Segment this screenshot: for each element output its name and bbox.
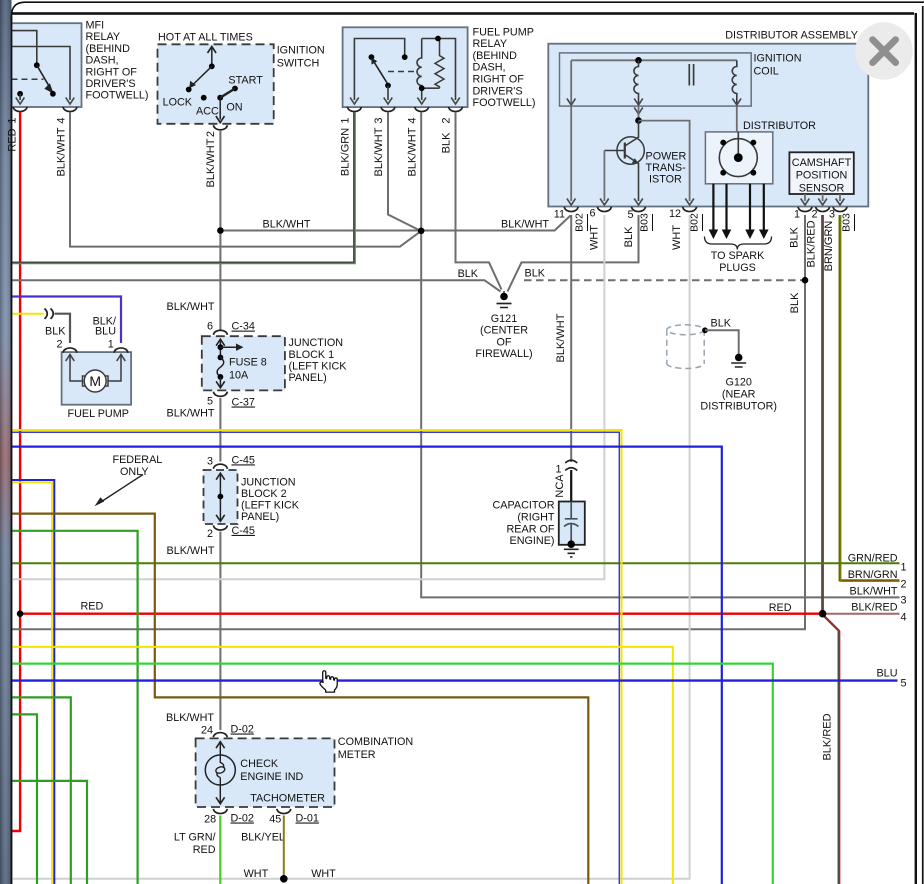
wire BLK/WHT bus y230 bbox=[220, 216, 570, 231]
svg-text:2: 2 bbox=[56, 338, 62, 350]
MFI switch blade bbox=[37, 65, 52, 91]
svg-text:IGNITION: IGNITION bbox=[277, 44, 325, 56]
ground G120 bbox=[731, 363, 746, 367]
svg-text:C-34: C-34 bbox=[232, 321, 255, 333]
svg-text:5: 5 bbox=[901, 678, 907, 690]
wire BLU thin pair top bbox=[11, 432, 619, 884]
connector ignition pin 2 bbox=[213, 125, 227, 130]
arrow down meter exit bbox=[216, 797, 225, 804]
svg-text:JUNCTION: JUNCTION bbox=[289, 337, 344, 349]
svg-text:DASH,: DASH, bbox=[86, 55, 119, 67]
right border line bbox=[915, 13, 917, 884]
connector pin 12 bbox=[683, 207, 697, 212]
svg-text:BLOCK 2: BLOCK 2 bbox=[241, 488, 287, 500]
secondary coil winding L2 bbox=[732, 60, 737, 103]
svg-text:BLOCK 1: BLOCK 1 bbox=[289, 349, 335, 361]
svg-text:ONLY: ONLY bbox=[120, 466, 149, 478]
ignition switch dashed box bbox=[158, 44, 274, 124]
wire BLK FP pin2 to G121 bbox=[456, 112, 502, 290]
svg-text:(LEFT KICK: (LEFT KICK bbox=[289, 360, 348, 372]
svg-text:OF: OF bbox=[497, 336, 512, 348]
ignition coil pin 11 leg bbox=[570, 60, 572, 103]
JB1 tap dot bbox=[218, 344, 224, 350]
wire BLK/RED diagonal red stripe bbox=[826, 617, 840, 884]
svg-text:PANEL): PANEL) bbox=[289, 372, 327, 384]
wire YEL fuel pump feed bbox=[11, 313, 44, 315]
svg-text:BLK/WHT: BLK/WHT bbox=[205, 138, 217, 187]
svg-text:(BEHIND: (BEHIND bbox=[473, 50, 518, 62]
wire BLU exit 5 bbox=[11, 679, 898, 681]
svg-text:28: 28 bbox=[204, 814, 216, 826]
arrow down pin 11 bbox=[567, 199, 576, 206]
FP coil top dot bbox=[435, 36, 441, 42]
connector D-01 bbox=[277, 809, 291, 814]
lamp filament loop bbox=[215, 766, 226, 775]
svg-text:DISTRIBUTOR ASSEMBLY: DISTRIBUTOR ASSEMBLY bbox=[725, 29, 858, 41]
svg-text:WHT: WHT bbox=[244, 868, 269, 880]
fuse 8 top dot bbox=[218, 355, 224, 361]
START contact dot bbox=[232, 86, 238, 92]
distributor box bbox=[705, 132, 772, 184]
svg-text:M: M bbox=[89, 373, 101, 389]
fuel pump box bbox=[62, 352, 132, 405]
MFI pin1 stub bbox=[19, 94, 21, 100]
svg-text:BLK: BLK bbox=[525, 268, 546, 280]
svg-text:CHECK: CHECK bbox=[240, 758, 279, 770]
FP relay coil bbox=[417, 39, 422, 89]
wire BLU left pair corner bbox=[11, 480, 54, 884]
svg-text:2: 2 bbox=[811, 209, 817, 221]
arrow up JB1 entry bbox=[216, 339, 225, 346]
svg-text:ACC: ACC bbox=[196, 106, 219, 118]
svg-text:BLK/GRN: BLK/GRN bbox=[340, 128, 352, 176]
svg-text:WHT: WHT bbox=[311, 868, 336, 880]
svg-text:5: 5 bbox=[627, 209, 633, 221]
wire transistor base to pin 6 bbox=[603, 151, 605, 202]
wire GRN/RED exit 1 bbox=[11, 562, 900, 564]
svg-text:DRIVER'S: DRIVER'S bbox=[473, 85, 523, 97]
arrow down FP pin 3 bbox=[384, 98, 393, 105]
svg-text:BRN/GRN: BRN/GRN bbox=[823, 221, 835, 272]
arrow down MFI pin 1 bbox=[16, 98, 25, 105]
connector C-34 bbox=[213, 330, 227, 335]
svg-text:BLK/WHT: BLK/WHT bbox=[501, 219, 549, 231]
svg-text:TRANS-: TRANS- bbox=[646, 162, 687, 174]
JB1 tap arrowhead bbox=[236, 344, 244, 351]
lamp filament bbox=[217, 755, 224, 785]
svg-text:1: 1 bbox=[794, 209, 800, 221]
distributor contact dot 4 bbox=[751, 170, 757, 176]
wire capacitor lead bbox=[570, 470, 572, 502]
fuse 8 bottom dot bbox=[218, 374, 224, 380]
connector fuel pump pin 1 bbox=[114, 348, 128, 353]
junction dot RED right bbox=[819, 610, 827, 618]
svg-text:RED: RED bbox=[769, 602, 792, 614]
wire GRN A bbox=[11, 697, 71, 884]
wire BLK/RED exit 4 bbox=[823, 613, 900, 615]
svg-text:(BEHIND: (BEHIND bbox=[86, 43, 131, 55]
mouse cursor hand bbox=[320, 671, 337, 692]
arrow up fuel pump pin1 bbox=[117, 355, 126, 362]
svg-text:D-01: D-01 bbox=[296, 813, 319, 825]
FP coil bottom bus bbox=[422, 88, 440, 100]
svg-text:LT GRN/: LT GRN/ bbox=[174, 831, 216, 843]
arrow chevron below coil box bbox=[634, 108, 643, 115]
FP coil bottom dot bbox=[419, 85, 425, 91]
wire YEL horizontal pair top bbox=[11, 430, 622, 884]
wire LT GRN/RED meter pin 28 bbox=[219, 816, 221, 884]
wire GRN bright long bbox=[11, 664, 773, 884]
JB2 junction dot bbox=[218, 494, 224, 500]
wire condenser to G120 bbox=[705, 330, 739, 355]
wire BLU main horizontal bbox=[11, 447, 722, 884]
svg-text:2: 2 bbox=[901, 579, 907, 591]
MFI relay contact leg to pin 4 bbox=[12, 47, 71, 101]
capacitor ground dot bbox=[567, 540, 575, 548]
motor M1 right brush bbox=[103, 376, 108, 386]
svg-text:BLK/WHT: BLK/WHT bbox=[167, 545, 215, 557]
underline B02 pin12 bbox=[702, 214, 704, 231]
arrow down FP pin 1 bbox=[350, 98, 359, 105]
underline B03 pin5 bbox=[652, 214, 654, 231]
distributor contact dot 1 bbox=[720, 140, 726, 146]
arrow down JB1 exit bbox=[216, 381, 225, 388]
ignition switch feed arrow up bbox=[211, 48, 213, 66]
G120 ground dot bbox=[735, 354, 743, 362]
svg-text:START: START bbox=[228, 75, 263, 87]
MFI contact dot C bbox=[17, 91, 23, 97]
svg-text:PANEL): PANEL) bbox=[241, 511, 279, 523]
FP dashed actuation bbox=[388, 71, 418, 73]
svg-text:2: 2 bbox=[205, 131, 217, 137]
wire GRN mid bbox=[11, 531, 138, 884]
connector fuel pump pin 2 bbox=[63, 348, 77, 353]
connector C-45 bottom bbox=[213, 525, 227, 530]
arrow down camshaft pin 2 bbox=[818, 199, 827, 206]
svg-text:BLK/RED: BLK/RED bbox=[822, 713, 834, 760]
junction block 2 dashed box bbox=[204, 470, 238, 524]
svg-text:FOOTWELL): FOOTWELL) bbox=[86, 90, 149, 102]
ignition switch pivot dot bbox=[209, 63, 215, 69]
JB1 internal wire top bbox=[219, 340, 221, 357]
svg-text:RED: RED bbox=[7, 128, 19, 151]
spark plug arrowhead x=763.8 bbox=[759, 230, 769, 240]
JB1 internal wire bottom bbox=[219, 377, 221, 387]
wire BLK/GRN FP pin1 to left bbox=[11, 112, 354, 263]
arrow up fuel pump pin2 bbox=[66, 355, 75, 362]
wire BLK/RED diagonal down right side bbox=[825, 617, 839, 884]
svg-text:FUEL PUMP: FUEL PUMP bbox=[68, 408, 129, 420]
wire BLK/WHT C-45 to D-02 bbox=[219, 532, 221, 731]
wire BLK/WHT MFI pin4 down and right bbox=[70, 112, 421, 247]
connector FP pin 3 bbox=[381, 107, 395, 112]
svg-text:45: 45 bbox=[269, 814, 281, 826]
arrow down coil secondary leg bbox=[733, 99, 742, 106]
arrow down pin 5 bbox=[634, 199, 643, 206]
connector pin 5 bbox=[632, 207, 646, 212]
ground G121 bbox=[497, 291, 512, 308]
JB1 tap arrow right bbox=[220, 346, 237, 348]
svg-text:BLK: BLK bbox=[711, 318, 732, 330]
junction dot ignition bus bbox=[217, 227, 224, 234]
arrow up JB2 entry bbox=[216, 473, 225, 480]
svg-text:B02: B02 bbox=[574, 213, 586, 232]
arrow down ignition output bbox=[216, 116, 225, 123]
svg-text:BLK: BLK bbox=[45, 325, 66, 337]
page sidebar background bbox=[0, 0, 12, 884]
FP movable contact dot bbox=[369, 54, 375, 60]
svg-text:BLK/WHT: BLK/WHT bbox=[167, 408, 215, 420]
JB2 internal wire bbox=[219, 474, 221, 521]
svg-text:BLU: BLU bbox=[876, 668, 897, 680]
svg-text:BLK/WHT: BLK/WHT bbox=[555, 313, 567, 362]
spark plug arrowhead x=750 bbox=[745, 230, 755, 240]
svg-text:1: 1 bbox=[108, 338, 114, 350]
svg-text:RIGHT OF: RIGHT OF bbox=[86, 66, 138, 78]
MFI relay box bbox=[12, 23, 82, 107]
meter internal wire top bbox=[219, 743, 221, 756]
connector D-02 top bbox=[213, 733, 227, 738]
svg-text:D-02: D-02 bbox=[231, 724, 254, 736]
svg-text:WHT: WHT bbox=[671, 225, 683, 250]
ignition coil top bus wire bbox=[571, 59, 737, 61]
svg-text:BLK/YEL: BLK/YEL bbox=[241, 831, 285, 843]
connector MFI pin 4 bbox=[63, 107, 77, 112]
MFI relay coil leg (cut) bbox=[12, 31, 37, 64]
svg-text:3: 3 bbox=[901, 595, 907, 607]
svg-text:B03: B03 bbox=[841, 213, 853, 232]
arrow down pin 12 bbox=[685, 199, 694, 206]
wire BRN/GRN camshaft pin3 to exit 2 bbox=[840, 215, 900, 580]
wire BLK/WHT FP pin3 to bus bbox=[388, 112, 421, 231]
arrow down camshaft pin 1 bbox=[801, 199, 810, 206]
arrowhead up ignition feed bbox=[208, 47, 217, 54]
distributor center dot bbox=[734, 153, 743, 162]
svg-text:C-45: C-45 bbox=[232, 454, 255, 466]
connector camshaft pin 3 bbox=[833, 207, 847, 212]
svg-text:BLK/RED: BLK/RED bbox=[806, 220, 818, 267]
capacitor box bbox=[559, 502, 585, 545]
meter internal wire bottom bbox=[219, 785, 221, 803]
svg-text:RELAY: RELAY bbox=[86, 31, 121, 43]
svg-text:RELAY: RELAY bbox=[473, 38, 508, 50]
svg-text:BLK/WHT: BLK/WHT bbox=[407, 127, 419, 176]
wire WHT pin12 down to bottom WHT bus bbox=[11, 215, 690, 879]
card left border overpaint bbox=[11, 16, 13, 884]
wire BLK G121 to distributor pin5 bbox=[508, 215, 639, 292]
connector camshaft pin 2 bbox=[816, 207, 830, 212]
svg-text:(RIGHT: (RIGHT bbox=[517, 512, 555, 524]
svg-text:MFI: MFI bbox=[86, 20, 105, 32]
arrow down MFI pin 4 bbox=[66, 98, 75, 105]
FP blade arrowhead bbox=[371, 58, 377, 65]
camshaft position sensor box bbox=[789, 152, 853, 194]
close button X bbox=[873, 40, 896, 63]
svg-text:3: 3 bbox=[207, 455, 213, 467]
fuel pump relay box bbox=[343, 27, 468, 107]
svg-text:LOCK: LOCK bbox=[163, 96, 193, 108]
wire BLK/WHT FP pin4 down to exit 3 bbox=[421, 112, 899, 597]
motor M1 bbox=[84, 370, 106, 392]
FP contact bottom dot bbox=[385, 83, 391, 89]
svg-text:1: 1 bbox=[340, 117, 352, 123]
top rule bbox=[12, 12, 915, 15]
core mark || bbox=[689, 64, 693, 86]
connector C-45 top bbox=[213, 464, 227, 469]
svg-text:6: 6 bbox=[589, 208, 595, 220]
FP fixed contact dot bbox=[402, 54, 408, 60]
wire YEL left pair corner bbox=[11, 482, 52, 884]
MFI switch common dot bbox=[34, 62, 40, 68]
connector FP pin 1 bbox=[347, 107, 361, 112]
power transistor Q1 bbox=[604, 121, 644, 201]
wire BLK/GRN green stripe bbox=[11, 112, 355, 264]
svg-text:D-02: D-02 bbox=[231, 813, 254, 825]
check engine lamp bbox=[205, 755, 235, 785]
MFI contact dot B bbox=[50, 91, 56, 97]
svg-text:6: 6 bbox=[207, 321, 213, 333]
svg-text:SWITCH: SWITCH bbox=[277, 57, 320, 69]
wire BLK/WHT C-37 to C-45 bbox=[219, 398, 221, 462]
arrow down coil middle leg bbox=[634, 99, 643, 106]
svg-text:COIL: COIL bbox=[754, 66, 779, 78]
svg-text:1: 1 bbox=[7, 117, 19, 123]
svg-text:BLK/WHT: BLK/WHT bbox=[373, 127, 385, 176]
svg-text:HOT AT ALL TIMES: HOT AT ALL TIMES bbox=[158, 31, 253, 43]
wire GRN B bbox=[11, 714, 37, 884]
wire WHT pin6 down and left bbox=[11, 215, 604, 579]
underline B03 pin3 bbox=[854, 214, 856, 231]
wire RED from MFI pin1 down left side bbox=[11, 112, 20, 831]
noise condenser tap dot bbox=[702, 327, 708, 333]
svg-text:B03: B03 bbox=[639, 213, 651, 232]
svg-text:DISTRIBUTOR): DISTRIBUTOR) bbox=[700, 400, 777, 412]
junction dot transistor collector node bbox=[635, 117, 642, 124]
wire RED horizontal bbox=[20, 613, 823, 615]
svg-text:WHT: WHT bbox=[589, 225, 601, 250]
wire BLK dashed G121 to camshaft pin1 bbox=[524, 279, 805, 281]
ignition switch blade to LOCK bbox=[192, 66, 212, 86]
svg-text:BLK: BLK bbox=[789, 226, 801, 247]
inline connector arcs fuel pump bbox=[45, 309, 54, 319]
spark plugs brace bbox=[705, 237, 772, 250]
svg-text:BLK/WHT: BLK/WHT bbox=[263, 219, 311, 231]
svg-text:RIGHT OF: RIGHT OF bbox=[473, 74, 525, 86]
wire BLK camshaft pin1 down and left bbox=[11, 215, 805, 629]
FP relay pin1 to fixed contact bbox=[354, 39, 404, 101]
svg-text:BLK/WHT: BLK/WHT bbox=[56, 127, 68, 176]
svg-text:ENGINE IND: ENGINE IND bbox=[240, 771, 303, 783]
arrow down FP pin 2 bbox=[451, 98, 460, 105]
wire BRN/GRN green stripe bbox=[841, 215, 900, 582]
noise condenser cylinder dashed bbox=[667, 325, 704, 369]
ignition coil box bbox=[560, 53, 752, 106]
svg-text:C-37: C-37 bbox=[232, 397, 255, 409]
close button circle bbox=[855, 22, 912, 79]
wire GRN C bbox=[11, 781, 87, 884]
svg-text:JUNCTION: JUNCTION bbox=[241, 476, 296, 488]
wire coil to power transistor node bbox=[638, 106, 640, 121]
primary coil winding L1 bbox=[634, 60, 639, 103]
connector camshaft pin 1 bbox=[798, 207, 812, 212]
ignition blade arrowhead bbox=[189, 81, 196, 89]
svg-text:CAMSHAFT: CAMSHAFT bbox=[792, 157, 852, 169]
distributor contact dot 2 bbox=[751, 140, 757, 146]
wire BRN long bbox=[11, 514, 588, 884]
svg-text:11: 11 bbox=[554, 209, 565, 221]
connector pin 11 bbox=[564, 207, 578, 212]
svg-text:1: 1 bbox=[901, 561, 907, 573]
svg-text:4: 4 bbox=[901, 612, 907, 624]
junction dot RED left bbox=[17, 610, 24, 617]
svg-text:10A: 10A bbox=[229, 370, 249, 382]
arrow up meter entry bbox=[216, 742, 225, 749]
ignition switch output wire bbox=[219, 98, 221, 120]
svg-text:GRN/RED: GRN/RED bbox=[848, 552, 898, 564]
svg-text:BLK: BLK bbox=[789, 292, 801, 313]
fuse 8 element bbox=[217, 357, 224, 377]
wire YEL second bbox=[11, 647, 673, 884]
svg-text:C-45: C-45 bbox=[232, 525, 255, 537]
LOCK contact dot bbox=[186, 87, 192, 93]
svg-text:4: 4 bbox=[407, 117, 419, 123]
svg-text:POSITION: POSITION bbox=[796, 170, 848, 182]
svg-text:12: 12 bbox=[669, 208, 681, 220]
svg-text:BLK: BLK bbox=[623, 226, 635, 247]
svg-text:REAR OF: REAR OF bbox=[507, 523, 555, 535]
wire BLK/RED red stripe bbox=[822, 215, 824, 613]
underline B02 pin11 bbox=[587, 214, 589, 231]
fuel pump internal wires bbox=[70, 354, 121, 381]
junction block 1 dashed box bbox=[202, 336, 285, 390]
svg-text:3: 3 bbox=[829, 209, 835, 221]
svg-text:2: 2 bbox=[207, 528, 213, 540]
svg-text:24: 24 bbox=[201, 725, 213, 737]
svg-text:FIREWALL): FIREWALL) bbox=[475, 348, 532, 360]
arrow down FP pin 4 bbox=[417, 98, 426, 105]
camshaft sensor pin wires bbox=[805, 194, 840, 201]
svg-text:CAPACITOR: CAPACITOR bbox=[493, 500, 555, 512]
svg-text:FEDERAL: FEDERAL bbox=[113, 454, 163, 466]
ON contact dot bbox=[217, 95, 223, 101]
svg-text:BLK: BLK bbox=[441, 132, 453, 153]
junction dot BLK dashed bbox=[802, 277, 809, 284]
ACC contact dot bbox=[201, 95, 207, 101]
FP coil top bus bbox=[422, 39, 456, 101]
coil secondary to distributor rotor wire bbox=[736, 106, 738, 132]
svg-text:ENGINE): ENGINE) bbox=[510, 535, 555, 547]
svg-text:IGNITION: IGNITION bbox=[754, 53, 802, 65]
FP pin3 wire bbox=[387, 86, 389, 101]
svg-text:PLUGS: PLUGS bbox=[719, 262, 756, 274]
wire node to pin 12 bbox=[639, 121, 690, 201]
svg-text:1: 1 bbox=[555, 463, 561, 475]
motor M1 left brush bbox=[83, 376, 88, 386]
svg-text:POWER: POWER bbox=[646, 150, 687, 162]
svg-text:TO SPARK: TO SPARK bbox=[711, 250, 765, 262]
FP switch blade bbox=[372, 59, 388, 84]
connector FP pin 4 bbox=[415, 107, 429, 112]
spark plug wires bbox=[713, 184, 763, 230]
svg-text:DRIVER'S: DRIVER'S bbox=[86, 78, 136, 90]
ON-START link bbox=[220, 89, 235, 98]
svg-text:3: 3 bbox=[373, 117, 385, 123]
wire BLK left to G121 bbox=[11, 280, 501, 291]
connector C-37 bbox=[213, 392, 227, 397]
svg-text:NCA: NCA bbox=[554, 474, 566, 498]
combination meter dashed box bbox=[196, 738, 335, 807]
svg-text:2: 2 bbox=[441, 117, 453, 123]
